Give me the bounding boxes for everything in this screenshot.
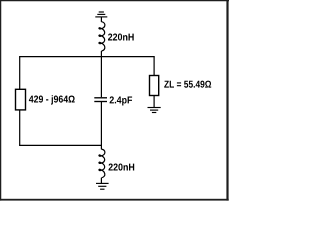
label L2 value 220nH	[109, 164, 135, 171]
wire top node to C1	[100, 57, 102, 98]
wire top horizontal bus	[19, 56, 155, 58]
ground (bottom)	[96, 183, 109, 189]
ground (right)	[148, 108, 161, 113]
wire right branch down to ZL	[153, 57, 155, 76]
wire ZL to right ground	[153, 96, 155, 108]
wire top-ground to L1	[100, 17, 102, 22]
label C1 value 2.4pF	[110, 96, 133, 105]
label ZL = 55.49 ohm	[164, 81, 211, 88]
wire bottom node to L2	[100, 145, 102, 149]
wire left branch down to R1	[19, 57, 21, 90]
capacitor C1 (2.4pF)	[94, 98, 107, 102]
inductor L2 (bottom 220nH)	[99, 149, 105, 178]
label R1 value 429 - j964 ohm	[29, 95, 75, 104]
wire C1 to bottom node	[100, 102, 102, 146]
wire bottom horizontal bus	[19, 144, 102, 146]
resistor R1 (429 - j964 ohm)	[16, 89, 26, 110]
wire R1 to bottom node	[19, 110, 21, 145]
inductor L1 (top 220nH)	[99, 22, 105, 51]
wire L1 to top node	[100, 51, 102, 57]
label L1 value 220nH	[108, 34, 134, 41]
wire L2 to bottom ground	[100, 178, 102, 184]
ground (top, flipped)	[95, 12, 107, 17]
load ZL (55.49 ohm)	[150, 76, 159, 96]
